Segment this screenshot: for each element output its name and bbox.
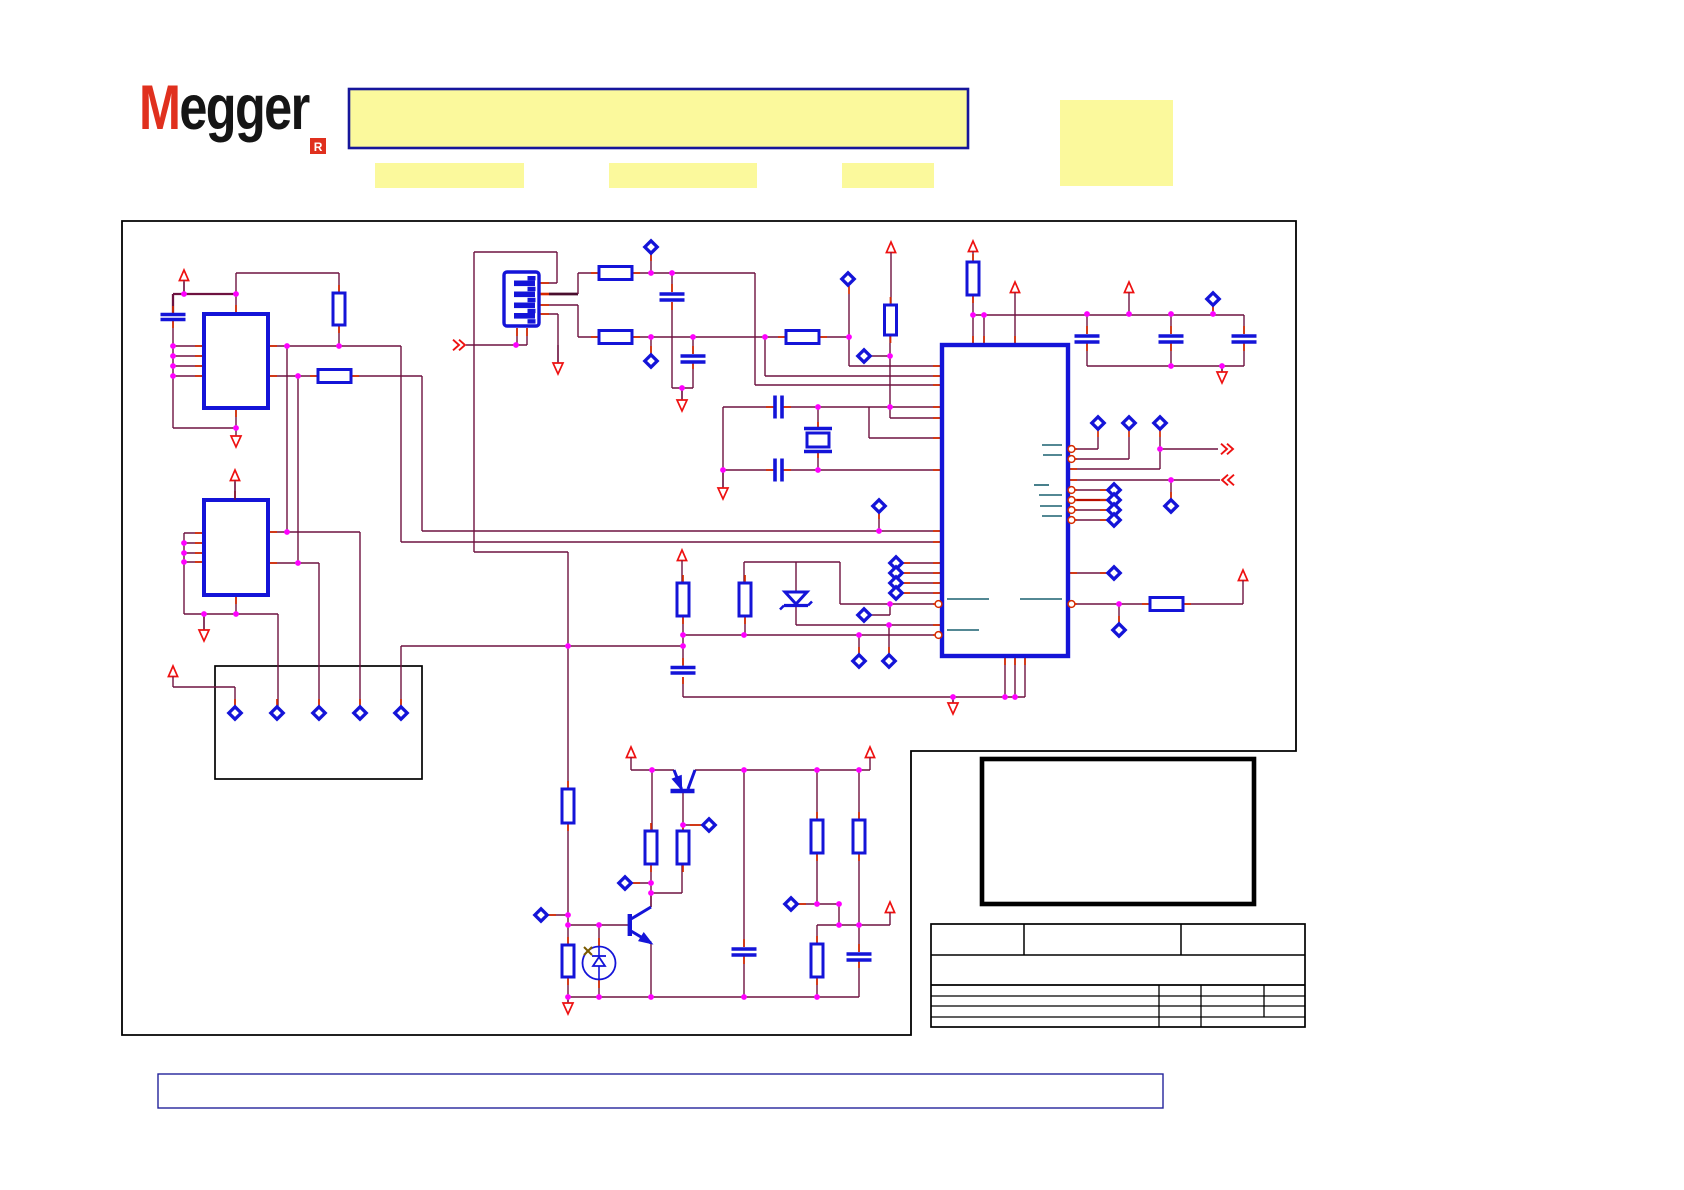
wire C7 top stub: [1086, 314, 1088, 334]
port OUT1: [1221, 444, 1233, 455]
wire SW1 pin2 to R4: [578, 273, 599, 294]
wire U1 bottom pin: [235, 408, 237, 428]
wire C9 top stub: [1243, 315, 1245, 334]
no-connect: [1207, 293, 1219, 305]
wire U1 top pin loop: [236, 273, 339, 314]
power VCC Q1b: [865, 747, 874, 759]
wire R9 top: [681, 562, 683, 583]
wire J1 pin1 feed: [173, 678, 235, 706]
wire base row: [568, 924, 628, 926]
power VCC U3a: [1010, 282, 1019, 294]
wire R17 bottom: [567, 977, 569, 997]
capacitor C1: [161, 315, 186, 320]
ground C2: [677, 388, 687, 411]
no-connect: [883, 655, 895, 667]
wire R13 bottom: [816, 853, 818, 904]
wire R13 top: [816, 770, 818, 820]
no-connect: [1108, 494, 1120, 506]
resistor R11: [645, 831, 657, 864]
no-connect: [785, 898, 797, 910]
power VCC R8: [968, 241, 977, 253]
wire R15 bottom: [816, 977, 818, 997]
wire U1 decoupling cap: [172, 294, 174, 314]
wire U3 pinC to port: [1068, 437, 1218, 469]
no-connect: [645, 241, 657, 253]
resistor R8: [967, 262, 979, 295]
wire C2 bottom to gnd: [672, 302, 693, 400]
ground caps: [1217, 366, 1227, 383]
wire crystal top row: [723, 406, 942, 408]
wire crystal gnd stub: [722, 470, 724, 488]
wire U1 pin to R3: [268, 375, 318, 377]
wire U3 pinJ row: [1068, 582, 1243, 623]
power VCC R7: [886, 242, 895, 254]
power VCC U2: [230, 470, 239, 500]
no-connect: [890, 567, 902, 579]
resistor R6: [786, 331, 819, 344]
wire node to U3 row604: [840, 562, 934, 615]
no-connect: [1108, 504, 1120, 516]
schematic border: [122, 221, 1296, 1035]
zener D1: [780, 592, 812, 610]
wire R4 to C2 node: [632, 273, 942, 385]
no-connect: [1108, 484, 1120, 496]
wire R11 top: [651, 770, 653, 831]
DIP switch SW1: [504, 272, 539, 326]
resistor R10: [739, 583, 751, 616]
ground Y1: [718, 470, 728, 499]
power VCC fb: [885, 902, 894, 914]
no-connect J1-4: [354, 707, 366, 719]
title box yellow: [349, 89, 968, 148]
title block table: [931, 924, 1305, 1027]
svg-text:R: R: [314, 140, 323, 154]
wire VCC Q1: [631, 759, 674, 770]
bottom note box: [158, 1074, 1163, 1108]
resistor R2: [333, 293, 345, 325]
power VCC Q1: [626, 747, 635, 759]
yellow label B: [609, 163, 757, 188]
wire node to row366: [849, 337, 942, 366]
ground U2: [199, 614, 209, 641]
ground U3: [948, 697, 958, 714]
resistor R4: [599, 267, 632, 280]
transistor Q2: [630, 907, 651, 943]
IC U2: [204, 500, 268, 595]
wire zener bottom to U3: [796, 606, 942, 654]
wire C2 top stub: [671, 273, 673, 292]
wire D2 bottom: [598, 980, 600, 997]
capacitor C11: [847, 954, 872, 960]
wire SW1 pin3 to R5: [539, 305, 599, 337]
crystal Y1: [804, 429, 832, 452]
wire NC stack pins: [902, 563, 942, 593]
Megger logo: [139, 73, 326, 154]
port IN: [453, 340, 465, 351]
no-connect: [1092, 417, 1104, 429]
wire NC2 stub: [650, 337, 652, 354]
inverted pins U3: [935, 446, 1075, 639]
wire port to SW1 bottom: [466, 328, 527, 345]
resistor R20: [1150, 598, 1183, 611]
resistor R3: [318, 370, 351, 383]
resistor R9: [677, 583, 689, 616]
pin name marks: [947, 445, 1062, 630]
no-connect: [873, 500, 885, 512]
power VCC U1: [179, 270, 188, 294]
wire NC3 stub: [1212, 305, 1214, 314]
capacitor C8: [1159, 336, 1184, 342]
capacitor C3: [681, 356, 706, 362]
no-connect: [1113, 624, 1125, 636]
no-connect J1-5: [395, 707, 407, 719]
no-connect: [1108, 514, 1120, 526]
ground Q rail: [563, 997, 573, 1014]
resistor R5: [599, 331, 632, 344]
wire R7 bottom node: [871, 335, 942, 418]
no-connect: [1165, 500, 1177, 512]
svg-text:Megger: Megger: [139, 73, 310, 144]
no-connect: [890, 577, 902, 589]
no-connect: [645, 355, 657, 367]
wire R14 bottom: [858, 853, 860, 925]
capacitor C4: [775, 396, 782, 419]
wire SW1 pin2 heavy: [549, 293, 578, 296]
wire crystal top stub: [817, 407, 819, 430]
wire D2 top: [598, 925, 600, 946]
wire R11 bottom to Q2: [632, 864, 682, 907]
wire U3 bottom pins: [1005, 656, 1025, 697]
wire gnd rail Q: [568, 997, 859, 1003]
no-connect J1-1: [229, 707, 241, 719]
ground U1: [231, 428, 241, 447]
wire fb node: [798, 904, 839, 925]
no-connect: [890, 587, 902, 599]
yellow label C: [842, 163, 934, 188]
wire U3 pinG NC: [1068, 509, 1107, 511]
wire crystal left: [722, 407, 724, 470]
capacitor C7: [1075, 336, 1100, 342]
wire node to row376: [765, 337, 942, 376]
power VCC R20: [1238, 570, 1247, 582]
ground SW1: [553, 345, 563, 374]
no-connect: [842, 273, 854, 285]
diode D2: [583, 946, 616, 980]
wire crystal bottom stub: [817, 450, 819, 470]
wire U3 pinH NC: [1068, 519, 1107, 521]
wire cap rail bottom: [1087, 343, 1244, 372]
no-connect J1-3: [313, 707, 325, 719]
yellow label D: [1060, 100, 1173, 186]
revision box: [982, 759, 1254, 904]
resistor R7: [885, 305, 897, 335]
wire R8 feed: [972, 253, 974, 262]
wire U1 pin rows left: [173, 346, 204, 376]
capacitor C6: [671, 668, 696, 674]
wire NC1 stub: [650, 253, 652, 273]
wire U3 pinB to NC: [1068, 437, 1129, 459]
IC U1: [204, 314, 268, 408]
no-connect: [535, 909, 547, 921]
wire R2 bottom to row: [338, 325, 340, 346]
no-connect: [619, 877, 631, 889]
wire C11 column: [858, 925, 860, 997]
wire C10 column: [743, 770, 745, 997]
wire C8 top stub: [1170, 314, 1172, 334]
wire VCC to U1 top: [183, 282, 185, 294]
wire Q1 base to R12: [683, 793, 702, 831]
wire R8 to U3: [972, 295, 974, 344]
no-connect: [858, 350, 870, 362]
IC U3: [942, 345, 1068, 656]
resistor R12: [677, 831, 689, 864]
port OUT2: [1222, 475, 1234, 486]
wire crystal bottom row: [723, 469, 942, 471]
capacitor C2: [660, 294, 685, 300]
no-connect: [890, 557, 902, 569]
wire U1 top rail thick: [173, 294, 236, 314]
wire U2 power pin: [234, 482, 236, 500]
wire SW1 pin1 loop: [474, 252, 557, 552]
wire U1 pin to net A: [268, 346, 942, 542]
connector J1 box: [215, 666, 422, 779]
wire NC to base node: [548, 914, 568, 916]
resistor R17: [562, 945, 574, 977]
no-connect: [1108, 567, 1120, 579]
wire C6 bottom to gnd row: [683, 677, 1025, 703]
capacitor C5: [775, 459, 782, 482]
wire cap rail top: [973, 315, 1244, 344]
wire R6 to diamond node: [819, 294, 849, 337]
power VCC U3b: [1124, 282, 1133, 294]
capacitor C9: [1232, 336, 1257, 342]
wire Q2 emitter down: [650, 943, 652, 997]
transistor Q1: [671, 770, 696, 791]
wire node to C6: [568, 635, 683, 666]
wire SW1 pin2 stub: [539, 293, 549, 296]
capacitor C10: [732, 949, 757, 955]
wire C3 top: [692, 337, 694, 354]
resistor R16: [562, 789, 574, 823]
wire R3 to net B: [351, 376, 942, 531]
wire VCC4 stub: [1128, 294, 1130, 314]
resistor R13: [811, 820, 823, 853]
resistor R14: [853, 820, 865, 853]
no-connect: [858, 609, 870, 621]
wire U1 to U2 link2: [268, 376, 319, 706]
wire U3 pinI NC: [1068, 572, 1107, 574]
wire net A teal row: [878, 512, 880, 531]
wire U1 to U2 link1: [268, 346, 360, 706]
no-connect: [1123, 417, 1135, 429]
wire R7 top: [890, 254, 892, 305]
wire bus down to Q area: [474, 552, 568, 789]
wire R14 top: [858, 770, 860, 820]
wire SW1 pin4 to gnd: [539, 314, 558, 363]
wire VCC3 to U3: [1014, 294, 1016, 344]
resistor R15: [811, 944, 823, 977]
wire U3 pinD to port: [1068, 480, 1220, 499]
wire U3 pinA to NC: [1068, 437, 1098, 449]
wire U3 pinF NC: [1068, 499, 1107, 501]
wire U3 pinE NC: [1068, 489, 1107, 491]
no-connect J1-2: [271, 707, 283, 719]
no-connect: [703, 819, 715, 831]
wire C3 bottom: [692, 361, 694, 388]
wire cap to U1 left pins: [173, 320, 236, 428]
wire to J1 pin2: [277, 614, 279, 706]
yellow label A: [375, 163, 524, 188]
wire U2 left pins: [184, 533, 204, 614]
wire R5 row to U3: [632, 336, 786, 338]
wire U2 ground row: [184, 595, 278, 630]
pin stubs: [173, 253, 1244, 988]
wire zener top net: [744, 562, 840, 592]
power VCC zener: [677, 550, 686, 562]
no-connect: [853, 655, 865, 667]
no-connect: [1154, 417, 1166, 429]
wire to J1 pin5: [401, 646, 568, 706]
power VCC J1: [168, 666, 177, 678]
wire R9 R10 bottom row: [683, 616, 934, 654]
wire R16 to base node: [567, 823, 569, 944]
wire row438: [869, 407, 942, 438]
wire Q1 right rail: [695, 759, 870, 770]
wire Q2 collector up: [650, 893, 652, 907]
wire fb row2: [817, 914, 890, 944]
